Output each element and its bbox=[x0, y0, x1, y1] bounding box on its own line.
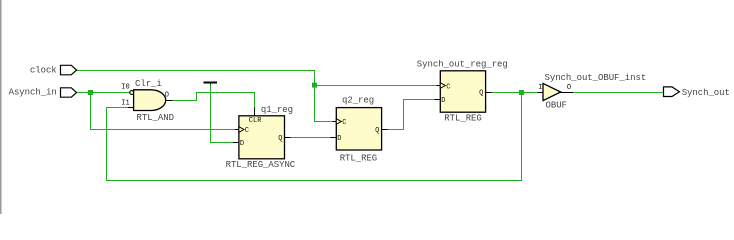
svg-text:Clr_i: Clr_i bbox=[135, 79, 162, 89]
svg-text:clock: clock bbox=[30, 66, 57, 76]
svg-text:Synch_out_reg_reg: Synch_out_reg_reg bbox=[417, 60, 508, 70]
svg-text:RTL_REG: RTL_REG bbox=[340, 153, 377, 163]
svg-text:q2_reg: q2_reg bbox=[342, 96, 374, 106]
svg-text:C: C bbox=[245, 127, 249, 135]
svg-text:RTL_REG: RTL_REG bbox=[444, 114, 481, 124]
svg-text:O: O bbox=[165, 91, 169, 99]
svg-text:RTL_REG_ASYNC: RTL_REG_ASYNC bbox=[226, 160, 296, 170]
svg-text:I1: I1 bbox=[121, 99, 129, 107]
svg-text:Q: Q bbox=[479, 90, 483, 98]
svg-text:I0: I0 bbox=[121, 84, 129, 92]
svg-text:C: C bbox=[446, 83, 450, 91]
svg-text:Asynch_in: Asynch_in bbox=[9, 87, 57, 97]
svg-text:D: D bbox=[240, 140, 244, 148]
svg-text:q1_reg: q1_reg bbox=[261, 105, 293, 115]
svg-text:O: O bbox=[567, 84, 571, 92]
svg-text:OBUF: OBUF bbox=[546, 100, 567, 110]
svg-text:Synch_out_OBUF_inst: Synch_out_OBUF_inst bbox=[545, 73, 647, 83]
svg-text:RTL_AND: RTL_AND bbox=[137, 113, 174, 123]
svg-text:D: D bbox=[441, 97, 445, 105]
svg-text:I: I bbox=[538, 84, 542, 92]
svg-text:Q: Q bbox=[375, 127, 379, 135]
svg-text:Synch_out: Synch_out bbox=[682, 88, 730, 98]
svg-text:Q: Q bbox=[278, 135, 282, 143]
svg-text:D: D bbox=[337, 135, 341, 143]
svg-text:CLR: CLR bbox=[249, 117, 262, 125]
svg-text:C: C bbox=[342, 119, 346, 127]
